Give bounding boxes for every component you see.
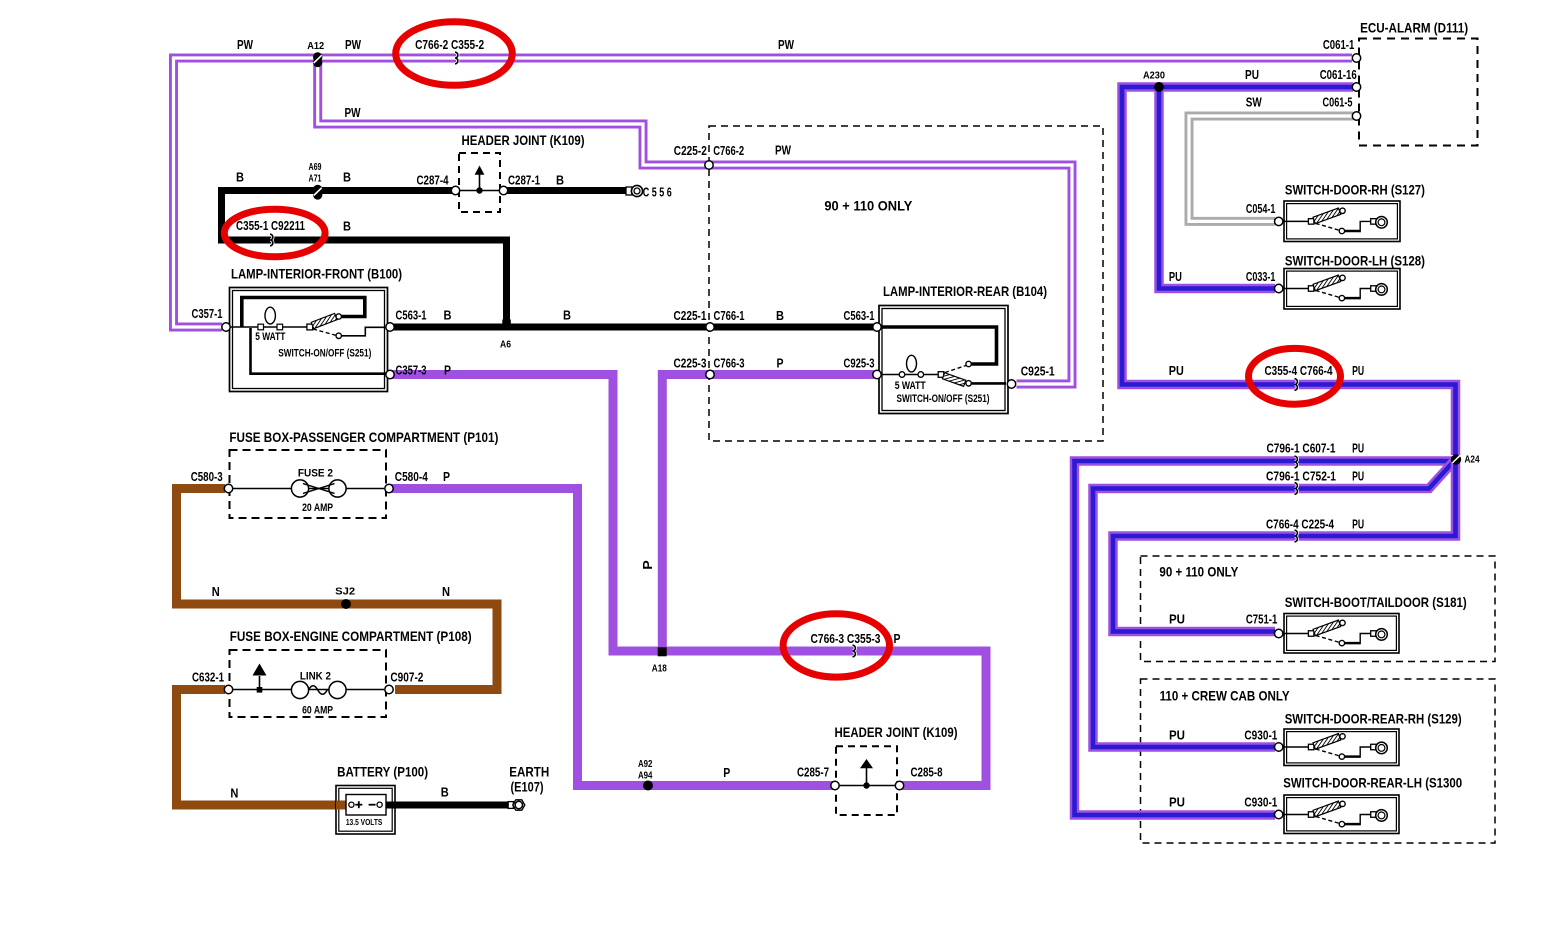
region box 90 + 110 ONLY (right) — [1141, 556, 1496, 662]
title BATTERY (P100) — [337, 764, 428, 780]
label N — [230, 787, 238, 801]
terminal C556 — [626, 185, 643, 196]
label A12 — [307, 40, 324, 52]
title 90 + 110 ONLY — [824, 198, 913, 214]
svg-text:C287-4: C287-4 — [417, 173, 449, 187]
svg-text:A69: A69 — [309, 161, 322, 173]
wire PU wire A24 to boot/taildoor switch — [1113, 458, 1456, 632]
connector C907-2 — [385, 685, 393, 693]
svg-text:C925-1: C925-1 — [1021, 364, 1055, 378]
title (E107) — [511, 778, 544, 794]
svg-text:C285-8: C285-8 — [911, 766, 943, 780]
title 110 + CREW CAB ONLY — [1160, 688, 1291, 704]
title 90 + 110 ONLY — [1159, 563, 1239, 579]
switch door rear LH S1300 connector — [1275, 810, 1283, 818]
label C925-3 — [844, 356, 875, 370]
svg-text:C355-1 C92211: C355-1 C92211 — [236, 219, 305, 233]
label C225-1 — [674, 309, 707, 323]
svg-text:SWITCH-BOOT/TAILDOOR (S181): SWITCH-BOOT/TAILDOOR (S181) — [1285, 594, 1467, 610]
svg-text:EARTH: EARTH — [509, 764, 549, 780]
label C287-1 — [508, 173, 540, 187]
wire N wire C580-3 to SJ2 to C907-2 — [177, 489, 498, 690]
label A71 — [309, 173, 322, 185]
svg-text:FUSE 2: FUSE 2 — [298, 468, 333, 480]
svg-text:ECU-ALARM (D111): ECU-ALARM (D111) — [1360, 19, 1468, 35]
label C054-1 — [1246, 202, 1276, 216]
wire PW front-lamp feed — [174, 58, 1353, 327]
svg-text:C225-2: C225-2 — [674, 144, 707, 158]
label PW — [775, 143, 791, 157]
wire PW branch A12 to rear lamp C925-1 — [318, 54, 1072, 384]
label A69 — [309, 161, 322, 173]
label C556 — [643, 186, 672, 200]
label P — [723, 766, 730, 780]
node A6 — [502, 320, 511, 328]
title SWITCH-DOOR-REAR-LH (S1300 — [1283, 775, 1462, 791]
label C766-3 C355-3 — [811, 632, 881, 646]
svg-text:C355-4 C766-4: C355-4 C766-4 — [1265, 364, 1333, 378]
highlight ellipse on C355-4/C766-4 — [1249, 348, 1341, 404]
label C355-1 C92211 — [236, 219, 305, 233]
label C357-1 — [192, 307, 223, 321]
svg-text:60 AMP: 60 AMP — [302, 704, 333, 716]
B100 bulb (5 WATT) — [258, 307, 283, 330]
node A230 — [1154, 82, 1164, 92]
label C766-3 — [714, 356, 745, 370]
svg-text:B: B — [343, 170, 351, 184]
svg-text:B: B — [776, 309, 784, 323]
svg-text:HEADER JOINT (K109): HEADER JOINT (K109) — [462, 132, 585, 148]
wire SW wire C061-5 to door switch RH — [1189, 116, 1353, 221]
svg-text:90 + 110 ONLY: 90 + 110 ONLY — [824, 198, 913, 214]
label C766-4 C225-4 — [1266, 518, 1334, 532]
connector C225-3/C766-3 — [706, 370, 714, 378]
svg-text:C925-3: C925-3 — [844, 356, 875, 370]
connector C357-3 — [386, 370, 394, 378]
label C925-1 — [1021, 364, 1055, 378]
svg-text:PU: PU — [1169, 728, 1185, 742]
fuse box passenger compartment P101 — [230, 450, 387, 518]
B104 internal wiring — [880, 327, 1006, 383]
label A24 — [1465, 454, 1480, 466]
svg-text:C357-1: C357-1 — [192, 307, 223, 321]
svg-text:PU: PU — [1352, 518, 1364, 532]
highlight ellipse on C766-3/C355-3 — [783, 614, 889, 677]
inline connector C766-4/C225-4 — [1295, 530, 1298, 542]
node A18 — [658, 647, 667, 656]
lamp interior front B100 box — [230, 288, 388, 392]
svg-text:SWITCH-DOOR-REAR-LH (S1300: SWITCH-DOOR-REAR-LH (S1300 — [1283, 775, 1462, 791]
svg-text:110 + CREW CAB ONLY: 110 + CREW CAB ONLY — [1160, 688, 1291, 704]
svg-text:C632-1: C632-1 — [192, 670, 224, 684]
label A18 — [652, 663, 667, 675]
svg-text:A18: A18 — [652, 663, 667, 675]
svg-text:SW: SW — [1246, 95, 1262, 109]
wire PU branch A230 to door switch LH — [1159, 83, 1275, 289]
svg-text:PW: PW — [778, 38, 794, 52]
switch door LH S128 connector — [1275, 284, 1283, 292]
svg-text:PU: PU — [1169, 612, 1185, 626]
label PW — [778, 38, 794, 52]
svg-text:C766-2 C355-2: C766-2 C355-2 — [415, 38, 484, 52]
svg-text:P: P — [777, 356, 784, 370]
svg-text:5 WATT: 5 WATT — [895, 380, 926, 392]
label PW — [237, 38, 253, 52]
svg-text:A92: A92 — [638, 758, 653, 770]
B100 internal wiring — [230, 298, 386, 374]
B104 bulb (5 WATT) — [899, 355, 923, 377]
svg-text:SWITCH-DOOR-REAR-RH (S129): SWITCH-DOOR-REAR-RH (S129) — [1285, 711, 1462, 727]
node A69/A71 — [313, 185, 322, 200]
label C751-1 — [1246, 612, 1278, 626]
earth terminal E107 — [508, 800, 525, 810]
switch door rear LH S1300 contacts — [1283, 801, 1388, 827]
label A6 — [500, 338, 511, 350]
connector C357-1 — [222, 323, 230, 331]
label PU — [1352, 442, 1364, 456]
svg-text:A12: A12 — [307, 40, 324, 52]
svg-text:B: B — [343, 219, 351, 233]
label C285-7 — [797, 766, 829, 780]
svg-text:P: P — [444, 363, 451, 377]
svg-text:C766-1: C766-1 — [714, 309, 745, 323]
label P — [777, 356, 784, 370]
svg-text:SWITCH-DOOR-RH (S127): SWITCH-DOOR-RH (S127) — [1285, 182, 1425, 198]
svg-text:C287-1: C287-1 — [508, 173, 540, 187]
B100 switch S251 — [307, 313, 342, 338]
label B — [776, 309, 784, 323]
connector C061-1 — [1352, 54, 1360, 62]
svg-text:A94: A94 — [638, 770, 653, 782]
battery cell and terminals — [346, 795, 386, 816]
svg-text:LINK 2: LINK 2 — [300, 670, 331, 682]
svg-text:C225-1: C225-1 — [674, 309, 707, 323]
inline connector C355-4/C766-4 — [1295, 379, 1298, 391]
label PU — [1169, 364, 1184, 378]
label N — [212, 585, 220, 599]
label B — [441, 786, 449, 800]
title EARTH — [509, 764, 549, 780]
svg-text:C796-1 C607-1: C796-1 C607-1 — [1267, 442, 1336, 456]
switch boot/taildoor S181 connector — [1275, 629, 1283, 637]
wire B wire C287-4 via A69 corner to A6 — [222, 191, 507, 328]
svg-text:C563-1: C563-1 — [844, 309, 875, 323]
highlight ellipse on C766-2/C355-2 — [396, 22, 513, 86]
svg-text:PU: PU — [1169, 796, 1185, 810]
node A12 — [313, 52, 322, 67]
region box 90 + 110 ONLY (left) — [709, 126, 1103, 441]
label C766-2 C355-2 — [415, 38, 484, 52]
label C061-5 — [1323, 95, 1353, 109]
svg-text:90 + 110 ONLY: 90 + 110 ONLY — [1159, 563, 1239, 579]
label SWITCH-ON/OFF (S251) — [278, 348, 371, 360]
wire P wire rear lamp C925-3 to A18 — [662, 375, 874, 649]
svg-text:N: N — [230, 787, 238, 801]
label C225-2 — [674, 144, 707, 158]
svg-text:C766-4 C225-4: C766-4 C225-4 — [1266, 518, 1334, 532]
connector C285-8 — [895, 781, 903, 789]
fuse FUSE 2 20 AMP — [231, 480, 384, 497]
switch door LH S128 box — [1284, 269, 1400, 310]
label C225-3 — [674, 356, 707, 370]
label B — [236, 170, 244, 184]
label PU — [1169, 796, 1185, 810]
svg-text:PW: PW — [345, 38, 361, 52]
label 20 AMP — [302, 502, 333, 514]
label PU — [1352, 364, 1364, 378]
wire N wire C632-1 to battery — [177, 690, 348, 806]
label B — [343, 219, 351, 233]
svg-text:FUSE BOX-ENGINE COMPARTMENT (P: FUSE BOX-ENGINE COMPARTMENT (P108) — [230, 628, 472, 644]
svg-text:C580-3: C580-3 — [191, 470, 223, 484]
label FUSE 2 — [298, 468, 333, 480]
label P — [443, 470, 450, 484]
svg-text:P: P — [894, 632, 901, 646]
title SWITCH-DOOR-RH (S127) — [1285, 182, 1425, 198]
wire B wire battery to earth — [382, 802, 508, 809]
title SWITCH-BOOT/TAILDOOR (S181) — [1285, 594, 1467, 610]
title HEADER JOINT (K109) — [462, 132, 585, 148]
switch door LH S128 contacts — [1283, 275, 1388, 301]
connector C287-1 — [499, 186, 507, 194]
svg-text:C930-1: C930-1 — [1244, 728, 1277, 742]
connector C632-1 — [224, 685, 232, 693]
svg-text:SWITCH-DOOR-LH (S128): SWITCH-DOOR-LH (S128) — [1285, 253, 1425, 269]
svg-text:HEADER JOINT (K109): HEADER JOINT (K109) — [835, 724, 958, 740]
svg-text:C225-3: C225-3 — [674, 356, 707, 370]
title LAMP-INTERIOR-FRONT (B100) — [231, 265, 402, 281]
connector C225-2/C766-2 — [705, 161, 713, 169]
title LAMP-INTERIOR-REAR (B104) — [883, 283, 1047, 299]
svg-text:B: B — [556, 173, 564, 187]
label 13.5 VOLTS — [346, 817, 383, 827]
svg-text:A6: A6 — [500, 338, 511, 350]
svg-text:PU: PU — [1169, 270, 1182, 284]
svg-text:BATTERY (P100): BATTERY (P100) — [337, 764, 428, 780]
svg-text:C054-1: C054-1 — [1246, 202, 1276, 216]
svg-text:C061-5: C061-5 — [1323, 95, 1353, 109]
svg-text:B: B — [563, 308, 571, 322]
label SWITCH-ON/OFF (S251) — [897, 393, 990, 405]
title FUSE BOX-ENGINE COMPARTMENT (P108) — [230, 628, 472, 644]
ECU-ALARM (D111) box — [1359, 39, 1478, 146]
svg-text:C357-3: C357-3 — [396, 363, 427, 377]
label C355-4 C766-4 — [1265, 364, 1333, 378]
svg-text:A230: A230 — [1143, 70, 1165, 82]
svg-text:B: B — [236, 170, 244, 184]
svg-text:PU: PU — [1245, 68, 1259, 82]
header joint K109 (top) arrow and bus — [457, 166, 502, 194]
wire B wire lamp front C563-1 to lamp rear C563-1 — [391, 324, 875, 331]
P108 feed arrow — [253, 664, 267, 693]
label C796-1 C752-1 — [1266, 470, 1336, 484]
svg-text:PU: PU — [1352, 470, 1364, 484]
svg-text:C751-1: C751-1 — [1246, 612, 1278, 626]
switch door RH S127 contacts — [1283, 208, 1388, 234]
wire B stub out of battery — [383, 802, 396, 809]
svg-text:P: P — [443, 470, 450, 484]
svg-text:A71: A71 — [309, 173, 322, 185]
switch door rear RH S129 box — [1284, 729, 1399, 766]
label C580-3 — [191, 470, 223, 484]
connector C061-5 — [1352, 112, 1360, 120]
label C563-1 — [396, 308, 427, 322]
svg-text:C061-1: C061-1 — [1323, 38, 1355, 52]
svg-text:C563-1: C563-1 — [396, 308, 427, 322]
label LINK 2 — [300, 670, 331, 682]
header joint K109 (bottom) arrow and bus — [838, 759, 896, 789]
label PU — [1245, 68, 1259, 82]
connector C563-1 (rear) — [873, 323, 881, 331]
label P — [444, 363, 451, 377]
label B — [444, 308, 452, 322]
switch door RH S127 box — [1284, 201, 1400, 242]
inline connector C766-3/C355-3 — [853, 645, 856, 657]
svg-text:C061-16: C061-16 — [1320, 68, 1357, 82]
svg-text:SJ2: SJ2 — [335, 586, 355, 598]
svg-text:PW: PW — [345, 106, 361, 120]
node A92/A94 — [643, 781, 653, 791]
label C766-2 — [713, 144, 744, 158]
svg-text:B: B — [444, 308, 452, 322]
header joint K109 (top) box — [459, 153, 500, 212]
node SJ2 — [341, 599, 351, 609]
label A92 — [638, 758, 653, 770]
label PU — [1352, 518, 1364, 532]
title SWITCH-DOOR-LH (S128) — [1285, 253, 1425, 269]
svg-text:LAMP-INTERIOR-REAR (B104): LAMP-INTERIOR-REAR (B104) — [883, 283, 1047, 299]
label PU — [1352, 470, 1364, 484]
connector C580-3 — [224, 484, 232, 492]
svg-text:5 WATT: 5 WATT — [255, 331, 285, 343]
inline connector C796-1/C752-1 — [1295, 483, 1298, 495]
connector C287-4 — [451, 186, 459, 194]
label PU — [1169, 612, 1185, 626]
wire P wire front lamp C357-3 to A18 loop — [392, 375, 986, 786]
label C930-1 — [1244, 796, 1277, 810]
label SJ2 — [335, 586, 355, 598]
svg-text:C930-1: C930-1 — [1244, 796, 1277, 810]
label P — [894, 632, 901, 646]
switch door RH S127 connector — [1275, 217, 1283, 225]
label C287-4 — [417, 173, 449, 187]
svg-text:PU: PU — [1352, 364, 1364, 378]
label C930-1 — [1244, 728, 1277, 742]
label 5 WATT — [255, 331, 285, 343]
svg-text:P: P — [723, 766, 730, 780]
label C796-1 C607-1 — [1267, 442, 1336, 456]
svg-text:(E107): (E107) — [511, 778, 544, 794]
connector C580-4 — [385, 484, 393, 492]
svg-text:P: P — [641, 560, 655, 570]
connector C563-1 (front) — [386, 323, 394, 331]
label C061-1 — [1323, 38, 1355, 52]
lamp interior rear B104 box — [879, 306, 1008, 414]
node A24 — [1451, 454, 1461, 464]
svg-text:PW: PW — [237, 38, 253, 52]
svg-text:B: B — [441, 786, 449, 800]
svg-text:N: N — [442, 585, 450, 599]
label C766-1 — [714, 309, 745, 323]
svg-text:C766-3: C766-3 — [714, 356, 745, 370]
svg-text:N: N — [212, 585, 220, 599]
label C061-16 — [1320, 68, 1357, 82]
label C357-3 — [396, 363, 427, 377]
svg-text:SWITCH-ON/OFF (S251): SWITCH-ON/OFF (S251) — [897, 393, 990, 405]
inline connector C355-1/C92211 — [270, 234, 273, 246]
svg-text:PU: PU — [1352, 442, 1364, 456]
svg-text:C033-1: C033-1 — [1246, 270, 1276, 284]
label 5 WATT — [895, 380, 926, 392]
label C033-1 — [1246, 270, 1276, 284]
label C580-4 — [395, 470, 428, 484]
label B — [563, 308, 571, 322]
svg-text:PU: PU — [1169, 364, 1184, 378]
wire P wire C285-7 to fuse C580-4 — [391, 489, 834, 786]
connector C925-3 — [873, 370, 881, 378]
switch door rear LH S1300 box — [1284, 795, 1399, 834]
title SWITCH-DOOR-REAR-RH (S129) — [1285, 711, 1462, 727]
region box 110 + CREW CAB ONLY — [1141, 679, 1496, 843]
switch door rear RH S129 connector — [1275, 743, 1283, 751]
title HEADER JOINT (K109) — [835, 724, 958, 740]
wire PU wire C061-16 via A230 to A24 — [1122, 87, 1456, 455]
svg-text:C796-1 C752-1: C796-1 C752-1 — [1266, 470, 1336, 484]
svg-text:C907-2: C907-2 — [390, 670, 423, 684]
svg-text:SWITCH-ON/OFF (S251): SWITCH-ON/OFF (S251) — [278, 348, 371, 360]
label PW — [345, 38, 361, 52]
svg-text:FUSE BOX-PASSENGER COMPARTMENT: FUSE BOX-PASSENGER COMPARTMENT (P101) — [229, 429, 498, 445]
label PU — [1169, 728, 1185, 742]
svg-text:C766-2: C766-2 — [713, 144, 744, 158]
svg-text:C 5 5 6: C 5 5 6 — [643, 186, 672, 200]
label SW — [1246, 95, 1262, 109]
svg-text:20 AMP: 20 AMP — [302, 502, 333, 514]
inline connector C766-2/C355-2 — [455, 52, 458, 64]
switch boot/taildoor S181 box — [1284, 614, 1399, 654]
svg-text:PW: PW — [775, 143, 791, 157]
inline connector C796-1/C607-1 — [1295, 456, 1298, 468]
label PU — [1169, 270, 1182, 284]
switch boot/taildoor S181 contacts — [1283, 620, 1388, 646]
battery P100 box — [336, 786, 395, 835]
svg-text:LAMP-INTERIOR-FRONT (B100): LAMP-INTERIOR-FRONT (B100) — [231, 265, 402, 281]
link LINK 2 60 AMP — [231, 681, 384, 698]
label P (vertical) — [641, 560, 655, 570]
fuse box engine compartment P108 — [230, 650, 387, 717]
connector C061-16 — [1352, 83, 1360, 91]
label 60 AMP — [302, 704, 333, 716]
wire B wire C287-1 to C556 — [506, 187, 629, 194]
svg-text:C580-4: C580-4 — [395, 470, 428, 484]
svg-text:C285-7: C285-7 — [797, 766, 829, 780]
label N — [442, 585, 450, 599]
label A94 — [638, 770, 653, 782]
wire N stub into battery — [336, 801, 349, 810]
svg-text:C766-3 C355-3: C766-3 C355-3 — [811, 632, 881, 646]
label A230 — [1143, 70, 1165, 82]
connector C285-7 — [831, 781, 839, 789]
label C632-1 — [192, 670, 224, 684]
connector C925-1 — [1007, 380, 1015, 388]
B104 switch S251 — [938, 361, 971, 386]
svg-text:13.5 VOLTS: 13.5 VOLTS — [346, 817, 383, 827]
label B — [343, 170, 351, 184]
svg-text:A24: A24 — [1465, 454, 1480, 466]
label C563-1 — [844, 309, 875, 323]
connector C225-1/C766-1 — [706, 323, 714, 331]
wire PU wire A24 to switch door rear LH — [1075, 461, 1453, 815]
